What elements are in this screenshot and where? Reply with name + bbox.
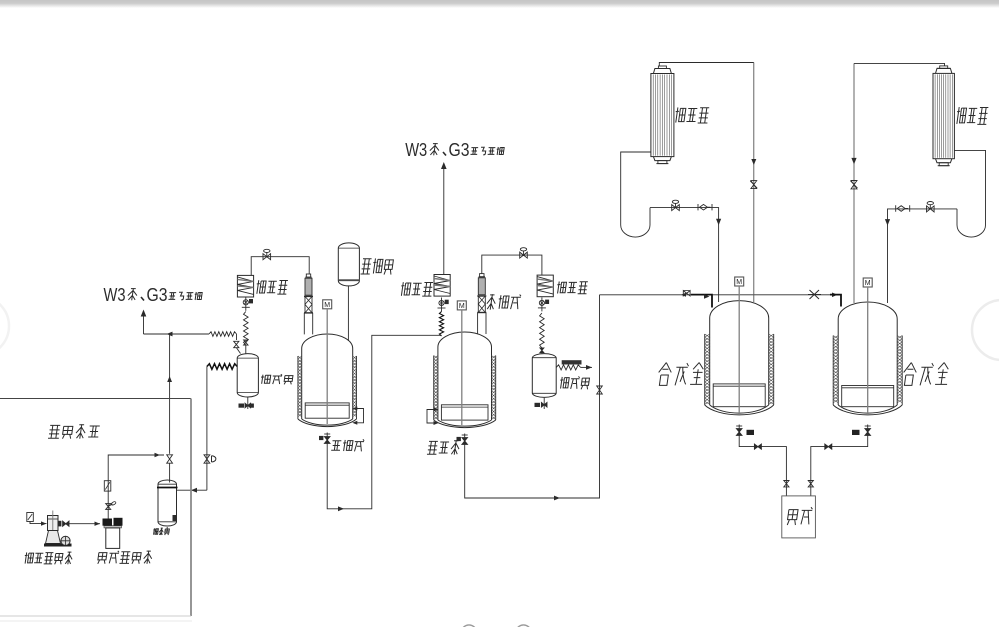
reactor S1 (合成釜 1) xyxy=(705,277,774,415)
wire: S2 discharge to packaging xyxy=(811,439,868,497)
T2 vent squiggle to vacuum xyxy=(556,365,580,370)
label 冷凝器 (K2) xyxy=(400,282,411,296)
bottom outlet valve P xyxy=(464,434,466,448)
vacuum system boundary box xyxy=(0,398,191,400)
label 罗茨真空泵 xyxy=(97,553,107,564)
wire: B2 vapor line from S2 xyxy=(854,63,945,66)
wire: E bottom transfer to P xyxy=(327,335,441,509)
T2 drain xyxy=(543,398,545,409)
wire: reflux down into S2 xyxy=(888,209,895,303)
thick feed elbow into S1 xyxy=(691,295,712,308)
label 冷凝器 (K3) xyxy=(556,282,567,294)
tank 缓冲罐 xyxy=(158,480,177,526)
wire: header to receiving tank T1 xyxy=(144,333,210,335)
wire: S1 discharge to packaging xyxy=(739,439,786,497)
label 聚酯釜 xyxy=(427,441,438,454)
wire: into buffer tank right nozzle xyxy=(176,489,207,491)
label 接收罐 (T2) xyxy=(559,377,569,389)
wire: roots pump riser xyxy=(108,455,164,519)
wire: B1 condensate U-seal xyxy=(621,152,651,225)
packaging box 包装 xyxy=(782,496,816,538)
condenser K1 (coil type) xyxy=(237,275,253,297)
bottom outlet valve E xyxy=(326,433,328,447)
svg-text:M: M xyxy=(459,303,465,310)
tiny label 接真空 xyxy=(562,360,582,364)
drain valve under condenser K1 xyxy=(245,297,247,311)
motor M box E (酯化釜) xyxy=(323,300,332,309)
label 螺杆真空泵 xyxy=(24,552,34,563)
condenser K2 (coil type) xyxy=(434,275,450,297)
label 冷凝器 (K1) xyxy=(255,280,266,294)
condenser K3 (coil type) xyxy=(537,275,553,297)
heater squiggle left of T1 xyxy=(207,364,237,370)
screw vacuum pump xyxy=(27,511,72,547)
wire: C2 top to K3 xyxy=(482,255,542,275)
tank 接收罐 T2 xyxy=(532,354,556,398)
floating button circle left edge xyxy=(0,296,9,356)
stirrer shaft S2 (合成釜 2) xyxy=(867,287,869,414)
floating button circle right edge xyxy=(972,300,999,360)
wire: vacuum header down (x=169.6) xyxy=(169,334,171,454)
bottom outlet valve S2 xyxy=(867,425,869,439)
header to synthesis kettles xyxy=(600,294,713,296)
label 合成釜 (S1) xyxy=(657,363,673,386)
svg-text:G3: G3 xyxy=(449,140,470,160)
wire: B1 vapor line from S1 xyxy=(659,63,754,67)
reactor E (酯化釜) xyxy=(298,300,357,427)
drain under T1 xyxy=(247,397,249,409)
wire: B2 condensate U-seal xyxy=(954,150,985,225)
label 分馏柱 xyxy=(486,294,497,309)
roots vacuum pump xyxy=(103,518,123,549)
packed column C1 xyxy=(304,274,313,334)
bottom pagination circles xyxy=(461,625,476,627)
jacket nozzles P left xyxy=(427,410,434,424)
label 合成釜 (S2) xyxy=(902,363,918,386)
svg-text:M: M xyxy=(865,280,871,287)
motor M box S2 (合成釜 2) xyxy=(863,278,872,287)
shell-and-tube condenser B1 xyxy=(651,66,674,164)
reactor S2 (合成釜 2) xyxy=(833,278,902,415)
valve above buffer tank xyxy=(167,455,173,463)
svg-text:M: M xyxy=(324,302,330,309)
squiggle: K1 condensate to T1 xyxy=(244,312,249,346)
buffer tank bottom stub xyxy=(166,527,168,531)
drain valve under condenser K2 xyxy=(441,298,443,312)
stirrer shaft P (聚酯釜) xyxy=(461,310,463,425)
label 接收罐 (T1) xyxy=(260,375,271,384)
reactor P (聚酯釜) xyxy=(434,301,496,428)
label 高位罐 xyxy=(361,259,372,274)
valve at receiving tank T1 inlet xyxy=(234,341,239,347)
wire: T1 heater line down to D-valve and buffer tank xyxy=(206,367,208,491)
stirrer shaft E (酯化釜) xyxy=(326,309,328,424)
header S1 to S2 with closed-valve X xyxy=(712,294,841,296)
jacket nozzles E right xyxy=(357,409,364,423)
label 冷凝器 (B2) xyxy=(955,107,966,124)
tank 接收罐 T1 xyxy=(237,354,258,397)
label 真空系统 xyxy=(48,425,61,438)
tank 高位罐 xyxy=(338,243,359,286)
label 冷凝器 (B1) xyxy=(674,107,686,122)
junction arrow on header xyxy=(167,332,173,337)
D-capped valve (vacuum break) xyxy=(204,455,210,463)
shell-and-tube condenser B2 xyxy=(933,66,954,166)
wire: reflux down into S1 xyxy=(712,208,719,302)
bottom outlet valve S1 xyxy=(738,425,740,439)
stirrer shaft S1 (合成釜 1) xyxy=(738,286,740,414)
wire: P bottom discharge xyxy=(465,295,600,498)
node: W3/G3 vent arrow (left) xyxy=(141,310,147,317)
wire: screw pump to roots pump xyxy=(69,523,100,525)
svg-text:G3: G3 xyxy=(147,285,168,305)
vent line W3 (top) xyxy=(443,164,445,275)
label 缓冲罐 xyxy=(153,528,159,534)
packed column C2 (分馏柱) xyxy=(477,274,486,334)
svg-text:W3: W3 xyxy=(104,285,126,305)
svg-text:W3: W3 xyxy=(405,140,427,160)
wire: elevated tank down to reactor E dome xyxy=(347,286,349,341)
motor M box S1 (合成釜 1) xyxy=(735,277,744,286)
motor M box P (聚酯釜) xyxy=(457,301,466,310)
drain valve under condenser K3 xyxy=(541,297,543,311)
label 酯化釜 xyxy=(331,441,341,451)
thick feed elbow into S2 xyxy=(830,295,841,307)
svg-text:M: M xyxy=(736,279,742,286)
squiggle into P dome xyxy=(439,312,443,337)
valve on K1 top loop xyxy=(263,254,271,260)
wire: K1 top loop to packed column C1 xyxy=(251,257,309,276)
